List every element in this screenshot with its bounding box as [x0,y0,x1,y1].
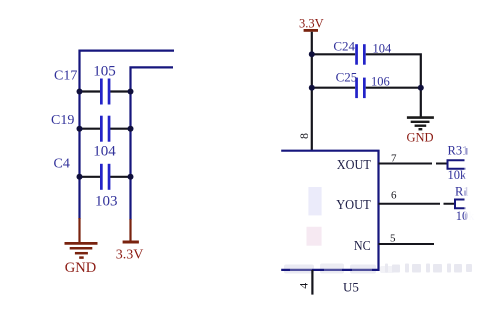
svg-text:104: 104 [373,42,393,56]
svg-text:U5: U5 [343,280,359,295]
svg-text:C19: C19 [51,113,74,128]
svg-text:C4: C4 [54,156,70,171]
svg-text:5: 5 [390,233,396,245]
svg-text:106: 106 [371,75,390,89]
svg-text:XOUT: XOUT [337,158,371,173]
svg-text:C25: C25 [336,69,358,84]
svg-text:3.3V: 3.3V [116,248,144,263]
svg-text:103: 103 [95,193,118,209]
svg-text:10k: 10k [448,168,468,182]
svg-text:GND: GND [406,131,433,145]
svg-text:7: 7 [391,153,397,165]
svg-text:GND: GND [65,260,96,276]
svg-text:6: 6 [391,190,397,202]
svg-text:C24: C24 [333,39,355,54]
svg-text:NC: NC [354,239,371,254]
svg-text:C17: C17 [54,69,77,84]
svg-text:4: 4 [296,283,310,289]
svg-text:104: 104 [93,143,116,159]
svg-text:YOUT: YOUT [336,198,371,213]
svg-text:105: 105 [93,63,116,79]
svg-text:3.3V: 3.3V [299,17,324,31]
svg-text:8: 8 [297,133,311,139]
